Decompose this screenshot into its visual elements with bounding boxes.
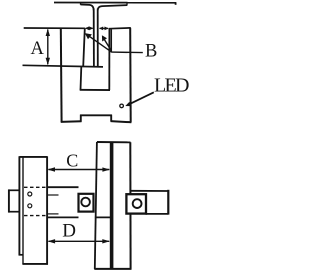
panel right end tick (175, 2, 177, 5)
stub top edge (9, 189, 20, 191)
C right arrowhead (102, 167, 110, 171)
B dimension left-gap double arrow (86, 27, 93, 29)
bar solid bottom edge (47, 216, 78, 218)
bar hidden top edge (dashed inside plate) (24, 186, 47, 188)
left plate right edge (46, 156, 48, 264)
left square circle (81, 198, 90, 207)
right bar end cap (167, 190, 169, 215)
notch top edge (80, 114, 112, 116)
hub short bottom line right of plate (47, 213, 58, 215)
bar hidden bottom edge (dashed inside plate) (24, 215, 47, 217)
dimension A vertical line (47, 30, 49, 65)
tab white interior (95, 8, 97, 66)
right square circle (133, 199, 142, 208)
left square (thick border) (79, 194, 94, 212)
svg-text:B: B (145, 41, 157, 61)
right bar top edge (131, 190, 169, 192)
panel bottom-left step (80, 3, 82, 5)
central plate left edge (95, 142, 97, 269)
central plate thick internal line (110, 142, 114, 269)
central plate top edge (97, 141, 131, 143)
bar solid top edge (plate to left square) (47, 186, 78, 188)
B leader diagonal to right gap (arrow up-left) (103, 37, 112, 51)
cavity bottom edge (80, 89, 110, 91)
bracket bottom edge left part (61, 120, 82, 123)
LED circle (120, 104, 124, 108)
cavity left wall (80, 67, 83, 90)
right square (thick border) (126, 194, 146, 213)
left plate top edge (19, 156, 47, 158)
stub bottom edge (9, 211, 20, 213)
bracket right edge (129, 28, 132, 123)
left plate bottom edge (22, 263, 48, 265)
bracket left edge (60, 28, 63, 123)
svg-text:D: D (62, 221, 76, 242)
hub short top line right of plate (47, 194, 58, 196)
right bar bottom edge (146, 213, 169, 215)
slot/cavity left wall (leaning) (83, 28, 85, 66)
svg-text:A: A (31, 39, 45, 59)
central plate bottom edge (94, 268, 131, 270)
LED leader arrowhead (125, 102, 131, 106)
bracket bottom edge right part (111, 121, 132, 122)
panel bottom line left of tab, bending down into tab left (81, 5, 94, 11)
D left arrowhead (48, 239, 56, 243)
shaft stub end cap (8, 189, 10, 212)
bracket right arm top edge (109, 27, 131, 30)
B dimension right-gap double arrow (100, 27, 108, 29)
panel bottom line right of tab, from tab right bend (98, 5, 127, 10)
left plate inner line (22, 157, 24, 264)
bracket top edge left arm + A top extension line (24, 27, 85, 29)
B leader diagonal to left gap (arrow up-left) (86, 34, 111, 52)
svg-text:LED: LED (154, 74, 190, 96)
notch left step (80, 115, 82, 122)
dimension D line (49, 240, 110, 242)
B leader horizontal (111, 51, 143, 54)
notch right step (110, 115, 112, 122)
panel bottom-right step up (126, 2, 128, 6)
dimension C line (49, 169, 110, 171)
A bottom extension / slot bottom line (23, 65, 104, 67)
dimension A top arrowhead (46, 29, 50, 36)
B leader vertical riser (110, 29, 112, 52)
dimension A bottom arrowhead (46, 58, 50, 65)
tab left line (93, 9, 95, 67)
D right arrowhead (102, 239, 110, 243)
slot/cavity right wall (108, 29, 110, 90)
tab right line (97, 9, 99, 67)
extension top edge (bar bottom level, left of plate) (95, 216, 112, 218)
LED leader arrow shaft (128, 92, 154, 105)
svg-text:C: C (66, 150, 78, 170)
left plate narrow-strip bottom (19, 254, 24, 256)
left plate outer left edge (18, 156, 20, 255)
C left arrowhead (48, 167, 56, 171)
central plate right edge (129, 142, 131, 269)
plate holes (two small rings) (28, 192, 32, 196)
panel top line (54, 2, 176, 4)
